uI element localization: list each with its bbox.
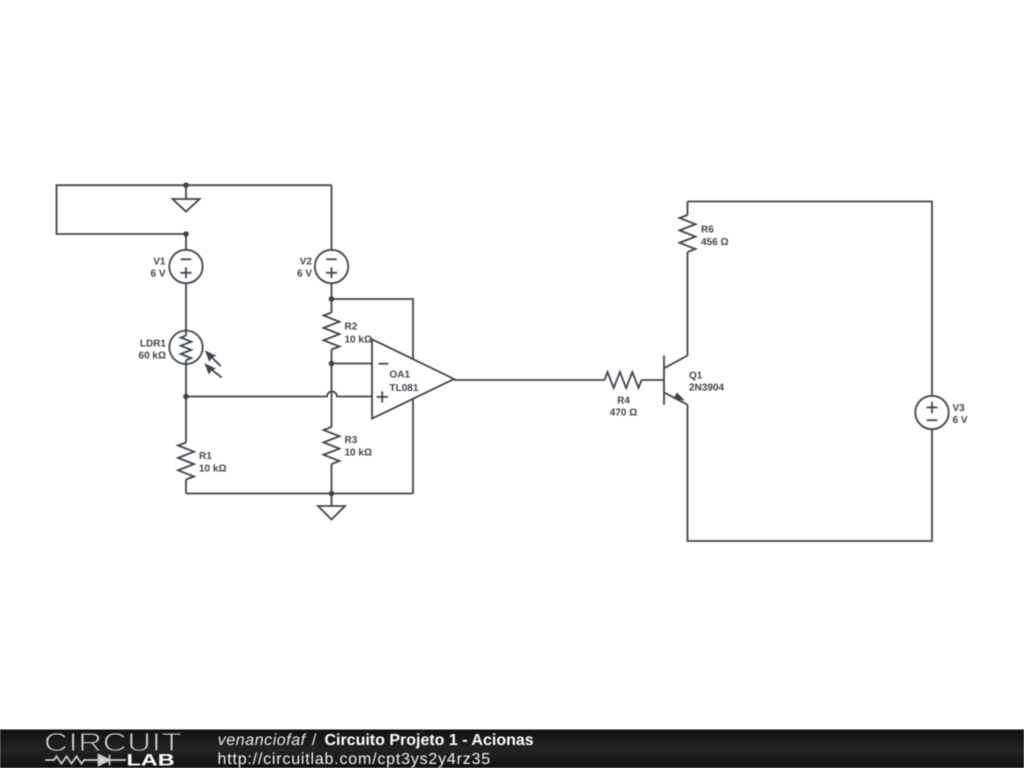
voltage source V2 <box>297 250 348 283</box>
wire emitter rail to V3 <box>688 405 933 541</box>
svg-text:10 kΩ: 10 kΩ <box>345 448 372 459</box>
svg-text:10 kΩ: 10 kΩ <box>199 464 226 475</box>
node noninverting net <box>183 394 189 400</box>
resistor R2 <box>324 299 372 364</box>
wire feedback loop <box>332 299 414 494</box>
voltage source V3 <box>915 396 968 429</box>
voltage source V1 <box>150 250 202 283</box>
wire to op-amp + input with hop over vertical wire <box>186 392 372 397</box>
ground (top) <box>173 185 200 211</box>
svg-text:R1: R1 <box>199 451 212 462</box>
wire op-amp output <box>454 379 605 381</box>
svg-text:venanciofaf / Circuito Projeto: venanciofaf / Circuito Projeto 1 - Acion… <box>218 732 534 749</box>
svg-text:10 kΩ: 10 kΩ <box>345 334 372 345</box>
svg-text:OA1: OA1 <box>390 370 411 381</box>
node inverting net <box>329 361 335 367</box>
svg-text:R3: R3 <box>345 435 358 446</box>
wire collector to R6 <box>687 252 689 356</box>
svg-text:LDR1: LDR1 <box>140 339 167 350</box>
svg-text:R4: R4 <box>617 395 630 406</box>
resistor R4 <box>605 372 665 418</box>
wire LDR1 to node <box>185 360 187 396</box>
svg-text:V1: V1 <box>153 257 166 268</box>
svg-text:6 V: 6 V <box>150 269 165 280</box>
svg-text:456 Ω: 456 Ω <box>701 237 728 248</box>
footer bar <box>0 730 1024 768</box>
wire V1 to LDR1 <box>185 283 187 336</box>
resistor R6 <box>680 202 729 252</box>
ground (bottom) <box>318 494 345 520</box>
wire top-right rail <box>688 202 933 397</box>
node V1 top junction <box>183 231 189 237</box>
svg-text:TL081: TL081 <box>390 383 419 394</box>
photoresistor LDR1 <box>139 331 222 378</box>
wire V2 to node <box>331 283 333 299</box>
svg-text:60 kΩ: 60 kΩ <box>139 351 166 362</box>
svg-text:V3: V3 <box>953 403 966 414</box>
svg-text:R2: R2 <box>345 322 358 333</box>
svg-text:V2: V2 <box>300 257 313 268</box>
wire V1 top stub <box>185 234 187 250</box>
node R2 top <box>329 296 335 302</box>
logo resistor-diode line <box>45 755 126 766</box>
transistor Q1 <box>664 356 724 405</box>
svg-text:470 Ω: 470 Ω <box>610 407 637 418</box>
node top-rail junction <box>183 182 189 188</box>
node ground net <box>329 491 335 497</box>
op-amp OA1 <box>372 339 454 418</box>
svg-text:LAB: LAB <box>127 752 175 768</box>
svg-text:http://circuitlab.com/cpt3ys2y: http://circuitlab.com/cpt3ys2y4rz35 <box>218 751 491 768</box>
svg-text:6 V: 6 V <box>953 415 968 426</box>
wire top rail <box>57 185 332 234</box>
resistor R1 <box>178 397 226 494</box>
svg-text:6 V: 6 V <box>297 269 312 280</box>
wire to op-amp - input <box>332 363 373 365</box>
wire V2 top stub <box>331 185 333 250</box>
wire bottom rail <box>186 493 413 495</box>
svg-text:2N3904: 2N3904 <box>689 383 724 394</box>
svg-text:Q1: Q1 <box>689 371 703 382</box>
resistor R3 <box>324 364 372 494</box>
svg-text:R6: R6 <box>701 224 714 235</box>
